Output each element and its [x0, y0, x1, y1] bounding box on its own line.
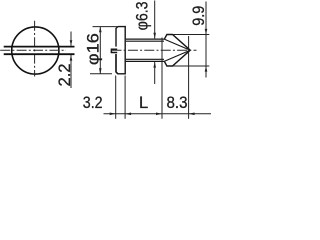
dim 8.3 arrow right (outside, pointing left)	[189, 113, 195, 116]
svg-text:9.9: 9.9	[190, 6, 208, 26]
shank crest bottom	[126, 60, 164, 62]
tip inner fan line bottom	[164, 50, 190, 61]
bottom dim line	[104, 113, 212, 115]
bottom ext line shank end	[161, 38, 163, 119]
dim phi16 line	[99, 27, 101, 74]
dim phi6.3 arrow lower	[153, 62, 156, 68]
dim 3.2 arrow left (outside, pointing right)	[110, 113, 116, 116]
shank crest top	[126, 38, 164, 40]
dim 9.9 ext top	[173, 34, 209, 36]
tip bulge and cone silhouette bottom	[164, 50, 190, 66]
dim 9.9 ext bottom	[173, 65, 209, 67]
head bottom edge	[116, 72, 118, 74]
svg-text:L: L	[139, 94, 148, 112]
bottom ext line head back	[124, 76, 126, 119]
dim phi6.3 line upper	[154, 1, 156, 39]
dim phi6.3 line lower	[154, 62, 156, 84]
shank root top	[126, 40, 164, 42]
tip inner fan line top	[164, 39, 190, 50]
bottom ext line tip	[188, 36, 190, 119]
slot top line	[4, 46, 75, 48]
dim 2.2 arrow lower	[70, 55, 73, 61]
axis centerline	[112, 49, 197, 51]
dim 9.9 arrow bottom	[205, 66, 208, 72]
shared arrow at shank end (pointing right)	[156, 113, 162, 116]
svg-text:2.2: 2.2	[56, 64, 74, 87]
svg-text:3.2: 3.2	[83, 94, 103, 112]
tip bulge and cone silhouette top	[164, 35, 190, 51]
left view: head circle	[12, 27, 59, 74]
dim phi6.3 arrow upper	[153, 33, 156, 39]
dim 9.9 line	[205, 2, 207, 78]
dim 2.2 arrow upper	[70, 40, 73, 46]
dim 9.9 arrow top	[205, 29, 208, 35]
horizontal centerline of circle	[0, 49, 66, 51]
shank root bottom	[126, 58, 164, 60]
dim 2.2 line lower	[70, 55, 72, 88]
shared arrow at head back (pointing left)	[125, 113, 131, 116]
slot nub on head face	[111, 49, 117, 52]
vertical centerline of circle	[34, 21, 36, 77]
svg-text:φ16: φ16	[85, 33, 103, 65]
slot bottom line	[4, 53, 75, 55]
side view: head outline	[116, 27, 125, 74]
dim phi16 ext top	[93, 26, 118, 28]
dim phi16 arrow top	[99, 27, 102, 33]
svg-text:8.3: 8.3	[167, 94, 188, 112]
bottom ext line head face	[115, 76, 117, 119]
head face line lower segment	[115, 54, 117, 72]
dim phi16 ext bottom	[90, 73, 112, 75]
svg-text:φ6.3: φ6.3	[134, 1, 152, 30]
dim 2.2 line upper	[70, 32, 72, 46]
dim phi16 arrow bottom	[99, 68, 102, 74]
